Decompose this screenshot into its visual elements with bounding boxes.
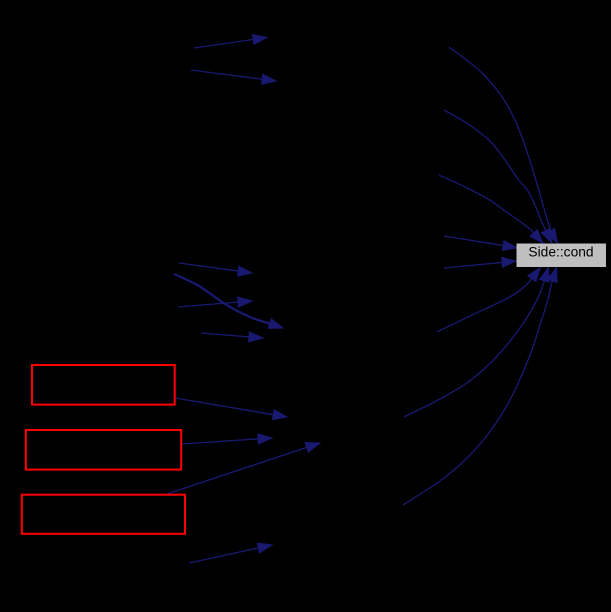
svg-text:Side::cond: Side::cond xyxy=(528,245,593,260)
